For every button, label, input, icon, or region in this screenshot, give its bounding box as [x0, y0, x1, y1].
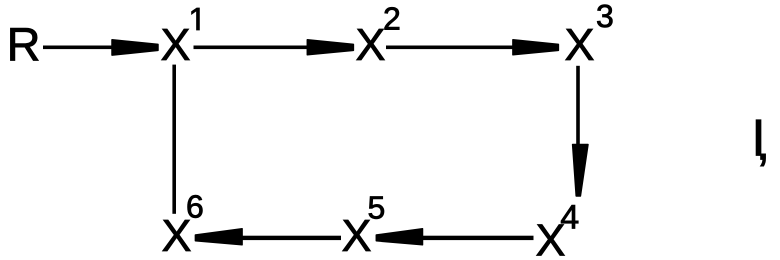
formula label I: [756, 120, 761, 156]
wire arrow shaft X3 down to X4: [576, 66, 580, 148]
wire arrow shaft R to X1: [43, 46, 121, 50]
node X2: [357, 29, 385, 60]
substituent R: [10, 28, 38, 60]
arrowhead X2 to X3: [513, 40, 559, 55]
wire bond X1 to X6 (vertical line): [172, 65, 176, 214]
arrowhead R to X1: [112, 40, 158, 55]
node X5: [343, 220, 371, 251]
pin label 5: [369, 196, 384, 218]
arrowhead X4 to X5 (left): [376, 229, 422, 245]
arrowhead X5 to X6 (left): [195, 229, 242, 245]
arrowhead X3 to X4 (down): [573, 145, 588, 197]
wire arrow shaft X5 to X6: [240, 236, 341, 240]
node X6: [163, 220, 191, 251]
wire arrow shaft X1 to X2: [194, 46, 312, 50]
pin label 4: [561, 205, 578, 228]
wire arrow shaft X2 to X3: [386, 46, 517, 50]
node X4: [537, 225, 565, 256]
pin label 6: [188, 195, 203, 218]
arrowhead X1 to X2: [307, 40, 353, 55]
pin label 3: [597, 5, 612, 28]
pin label 2: [385, 7, 400, 29]
pin label 1: [192, 8, 200, 30]
node X1: [162, 29, 190, 60]
wire arrow shaft X4 to X5: [420, 236, 534, 240]
comma after I: [760, 154, 765, 166]
node X3: [566, 29, 594, 60]
